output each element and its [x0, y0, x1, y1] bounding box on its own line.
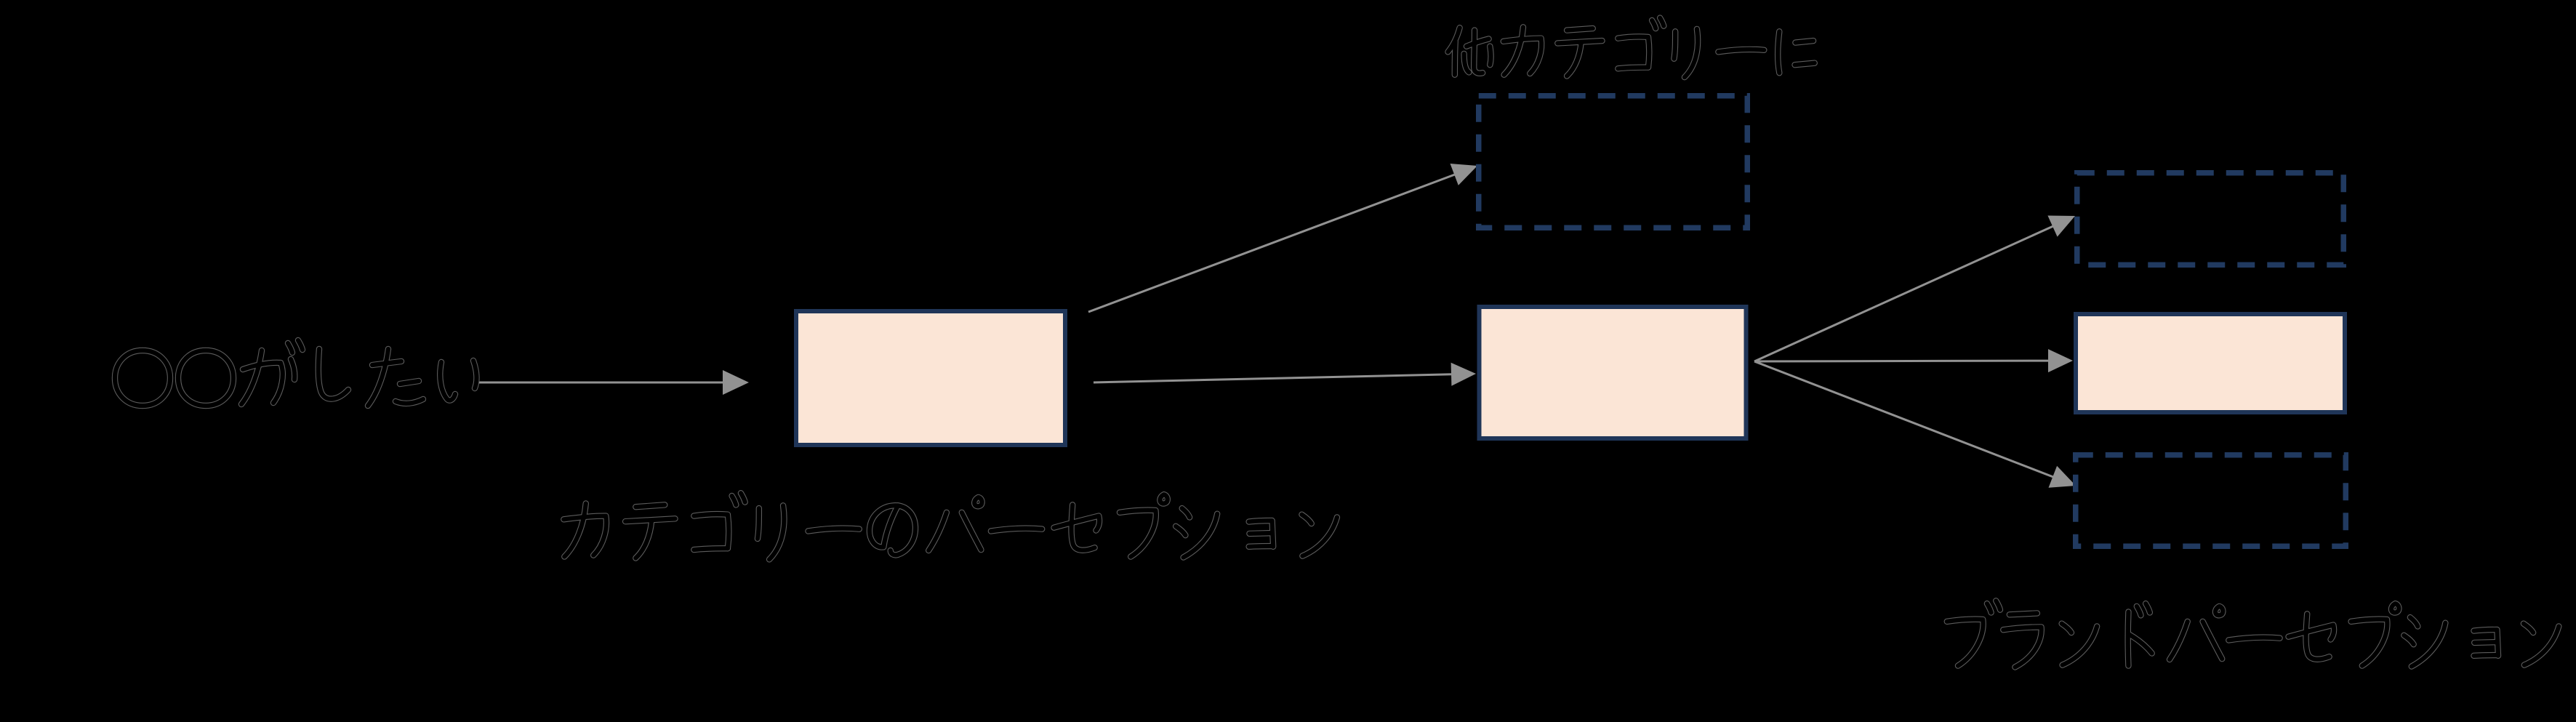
node box1 category perception (solid peach) [796, 311, 1065, 445]
wire arrow box1 to box2 [1094, 363, 1476, 386]
wire fan arrow to top-right dashed box [1754, 216, 2075, 362]
node dashed box C (bottom right) [2076, 455, 2346, 547]
node dashed box B (top right) [2077, 173, 2344, 265]
label: want to do XX [115, 340, 476, 406]
node dashed box A (other category) [1479, 96, 1748, 228]
wire fan arrow to middle-right solid box [1754, 349, 2073, 372]
wire arrow box1 to other-category dashed box [1088, 164, 1477, 312]
wire fan arrow to bottom-right dashed box [1754, 361, 2076, 488]
node box3 brand (solid peach) [2076, 314, 2345, 412]
label: category perception [563, 493, 1337, 559]
label: to other category [1448, 18, 1815, 78]
label: brand perception [1947, 601, 2559, 667]
wire arrow from user need text to category box [478, 370, 749, 395]
node box2 (solid peach) [1480, 307, 1746, 438]
